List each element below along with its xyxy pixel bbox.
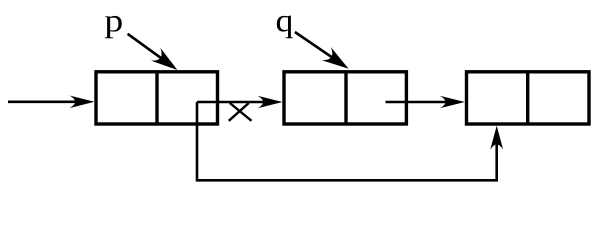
label p [105,16,122,38]
node N1 divider [155,72,158,124]
wire: q arrow shaft [295,32,341,63]
wire: new link N1 around to N3 (down, right, up) [197,102,497,180]
arrowhead of old link N1 to N2 [258,96,283,109]
arrowhead of link N2 to N3 [440,96,465,109]
wire: old link N1 to N2 shaft [197,101,267,104]
node N3 divider [526,72,529,124]
wire: link N2 to N3 shaft [386,101,450,104]
label q [277,16,293,39]
arrowhead of p arrow [151,48,178,70]
node N2 box [284,72,406,124]
node N3 box [467,72,590,124]
arrowhead of new link into N3 bottom [490,126,503,150]
wire: incoming arrow shaft [8,101,79,104]
arrowhead of q arrow [322,47,349,69]
node N1 box [96,72,218,124]
arrowhead of incoming arrow [70,96,95,109]
cross X deletion mark [229,103,252,121]
node N2 divider [344,72,347,124]
wire: p arrow shaft [128,34,170,65]
